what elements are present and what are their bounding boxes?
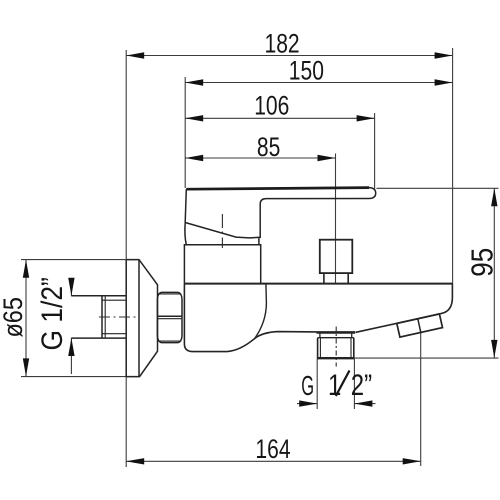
svg-text:1: 1 [328, 367, 341, 401]
svg-text:2”: 2” [351, 367, 372, 401]
svg-text:164: 164 [255, 435, 290, 465]
svg-text:G: G [301, 370, 314, 402]
svg-text:85: 85 [257, 133, 280, 163]
svg-text:106: 106 [254, 91, 289, 121]
svg-text:150: 150 [289, 56, 324, 86]
svg-text:G 1/2”: G 1/2” [34, 277, 68, 350]
svg-text:ø65: ø65 [0, 297, 28, 337]
svg-text:182: 182 [265, 29, 300, 59]
svg-text:95: 95 [465, 248, 500, 277]
